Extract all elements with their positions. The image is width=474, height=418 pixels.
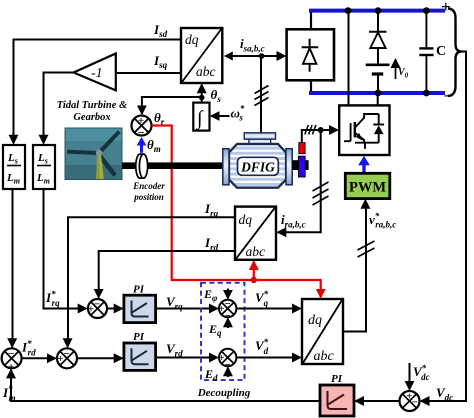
3-phase ticks on rotor wire <box>305 125 316 135</box>
summing junction S2 (d-axis current error) <box>57 348 77 368</box>
blue arrow PWM to IGBT <box>358 156 370 174</box>
node top bus x378 <box>375 7 382 14</box>
wire Isd from dq-abc1 to Ls/Lm block1 <box>14 40 182 144</box>
IGBT converter block <box>339 105 389 155</box>
end caps <box>223 149 229 185</box>
chopper branch: diode <box>369 11 387 65</box>
dc bus positive (top, blue) <box>309 9 445 13</box>
wire rotor node down to dq/abc2 (ira measurement) <box>278 130 321 232</box>
slip ring blue <box>298 156 305 177</box>
svg-text:Encoder: Encoder <box>132 181 165 191</box>
wire theta_s node up into dq/abc1 <box>201 85 203 98</box>
dc link brace <box>448 9 462 97</box>
svg-text:PWM: PWM <box>349 180 386 196</box>
svg-text:−: − <box>8 348 14 360</box>
svg-text:DFIG: DFIG <box>240 160 275 175</box>
node top bus x426 <box>423 7 430 14</box>
wire Ird from dq/abc2 to summing circle Sq <box>99 251 235 297</box>
wire bottom bus down to IGBT right terminal <box>377 93 379 105</box>
block Ls/Lm left <box>3 145 25 189</box>
DFIG machine graphic <box>223 133 292 188</box>
wire Vdc sense from brace down right edge to Vdc summing <box>421 52 466 402</box>
chopper branch: storage cell <box>366 65 390 93</box>
motor body octagon with fins <box>229 144 286 188</box>
svg-text:−: − <box>64 348 70 360</box>
wire Vq* Dq to dq/abc3 <box>236 308 300 310</box>
svg-text:abc: abc <box>196 64 216 79</box>
arrow E_d into Dd bottom <box>227 368 229 377</box>
svg-text:PI: PI <box>133 331 145 343</box>
terminal cap <box>249 138 271 145</box>
gate lead <box>344 140 351 142</box>
pink PI (dc volt controller) <box>320 385 354 416</box>
wire S1 to S2 (Ird*) <box>22 357 56 359</box>
encoder disk on shaft <box>136 154 148 178</box>
wire Vdc circle output to pink PI <box>356 400 400 402</box>
wire node to IGBT converter <box>321 129 338 131</box>
wire Vrq PI to decoupling circle Dq <box>156 308 218 310</box>
svg-text:PI: PI <box>331 373 343 385</box>
rotor shaft stub right <box>292 160 308 170</box>
wire vra* from dq/abc3 up into PWM <box>343 200 366 331</box>
wire Sq to PI q <box>107 308 122 310</box>
wire Im* from pink PI to S1 <box>11 370 320 401</box>
wire Ls/Lm2 down and right to summing circle Sq (Irq* path) <box>44 189 87 309</box>
tidal turbine photo <box>65 128 122 180</box>
collector path <box>355 114 379 128</box>
PI controller q (blue) <box>124 295 156 322</box>
svg-text:dq: dq <box>185 32 199 47</box>
wire Ls/Lm1 down to summing circle S1 <box>11 189 13 347</box>
DFIG name plate <box>238 157 279 175</box>
wire Irq from dq/abc2 to summing circle S2 <box>68 217 235 346</box>
arrow E_q into Dq bottom <box>227 319 229 328</box>
svg-text:Tidal Turbine &: Tidal Turbine & <box>57 100 128 111</box>
wire isa,b,c dq/abc1 to rectifier (double arrow) <box>224 52 285 61</box>
summing junction S1 (d-axis, Im* minus) <box>2 348 22 373</box>
arrow V0 <box>395 60 397 80</box>
summing junction Sq (q-axis current error) <box>88 298 107 318</box>
wire from -1 output down to Ls/Lm block2 <box>44 73 74 144</box>
gain block -1 triangle <box>74 54 116 91</box>
svg-text:-1: -1 <box>91 66 103 81</box>
summing junction Dd (decoupling d) <box>219 349 237 371</box>
block Ls/Lm right <box>33 145 55 189</box>
wire rectifier to dc bus top <box>310 11 312 30</box>
svg-text:Gearbox: Gearbox <box>73 112 110 123</box>
block dq/abc 2 (rotor current) <box>235 207 276 260</box>
svg-text:Decoupling: Decoupling <box>197 387 251 399</box>
red wire theta_r to rotor dq blocks <box>152 126 321 298</box>
svg-text:ω*s: ω*s <box>231 104 245 123</box>
wire rectifier to dc bus bottom <box>310 80 312 93</box>
shaft from turbine to DFIG <box>122 162 223 169</box>
arrow E_phi into Dq top <box>227 289 229 299</box>
svg-text:−: − <box>94 298 100 310</box>
svg-text:dq: dq <box>239 212 253 227</box>
node rotor converter junction <box>318 127 324 133</box>
svg-text:position: position <box>133 192 164 202</box>
block dq/abc 1 (stator) <box>181 28 222 83</box>
integrator block <box>193 99 209 131</box>
summing junction theta_r (slip) <box>132 116 152 140</box>
node isa,b,c <box>259 53 265 59</box>
node top bus x348 <box>345 7 352 14</box>
node bottom bus x378 <box>375 90 382 97</box>
blue arrow theta_m from encoder to summing junction <box>137 137 147 153</box>
emitter path with arrow <box>355 133 364 143</box>
wire Vrd PI to decoupling circle Dd <box>156 357 218 359</box>
wire stator from node isabc down to DFIG <box>260 56 262 134</box>
svg-text:dq: dq <box>308 313 322 328</box>
capacitor C branch <box>419 11 433 93</box>
decoupling dashed box <box>201 283 245 380</box>
PI controller d (blue) <box>124 343 156 370</box>
wire Isq from dq-abc1 to inverter triangle <box>116 72 181 74</box>
wire S2 to PI d <box>77 357 122 359</box>
svg-text:−: − <box>225 299 231 310</box>
rotor wire from slip rings to converter node <box>302 130 321 143</box>
3-phase slashes on vra* wire <box>358 241 375 257</box>
wire top bus down to IGBT left terminal <box>348 11 350 106</box>
antiparallel diode <box>378 114 380 125</box>
svg-text:PI: PI <box>133 284 145 296</box>
red node on theta slip wire <box>251 277 257 283</box>
PWM block <box>345 173 390 198</box>
wire omega_s* into integrator <box>211 115 229 117</box>
slip ring red <box>299 143 305 154</box>
summing junction Dq (decoupling q) <box>219 299 237 322</box>
summing junction Vdc <box>400 391 420 411</box>
node bottom bus x426 <box>423 90 430 97</box>
svg-text:abc: abc <box>246 244 266 259</box>
dc bus negative (bottom, blue) <box>309 91 445 95</box>
arrow Vdc* into circle top <box>409 363 411 389</box>
3-phase slash marks on stator wire <box>255 86 269 106</box>
wire Vd* Dd to dq/abc3 <box>236 357 300 359</box>
wire theta_s node to slip summing circle <box>142 97 202 114</box>
block dq/abc 3 (rotor voltage) <box>302 299 343 364</box>
svg-text:abc: abc <box>314 349 335 364</box>
node theta_s <box>199 95 205 101</box>
diode rectifier block <box>287 29 334 80</box>
3-phase slashes on rotor measurement wire <box>313 182 329 205</box>
svg-text:−: − <box>412 396 418 408</box>
svg-text:C: C <box>436 44 446 59</box>
